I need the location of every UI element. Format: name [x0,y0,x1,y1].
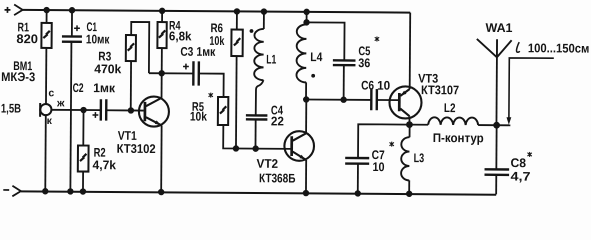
wire: C7 bottom to ground [357,164,359,194]
plus terminal sign [5,7,11,13]
svg-text:П-контур: П-контур [433,131,484,145]
svg-text:10мк: 10мк [86,32,110,46]
node dot C7 ground [355,190,361,196]
inductor L3 [401,137,410,180]
wire: L1 top lead [263,12,265,29]
resistor R1 [41,23,51,48]
emitter arrow VT3 (PNP, points to base) [401,91,407,96]
minus terminal sign [3,189,9,191]
node C VT1 collector junction [158,70,164,76]
wire: right rail drop to VT3 emitter [409,13,412,89]
wire: R6 top lead [236,11,238,29]
emitter arrow VT2 [299,155,305,160]
svg-text:1мк: 1мк [93,81,116,95]
wire: tank node to L2 [409,124,428,126]
wire: C8 top lead [495,125,497,169]
node dot R2 bottom ground [80,188,86,194]
wire: C8 bottom to ground [495,175,497,195]
wire: R6 bottom to VT2 base wire [235,56,238,148]
svg-text:10: 10 [372,160,384,174]
wire: microphone output to C2 [51,109,100,111]
transistor VT1 [139,97,169,127]
svg-text:L2: L2 [444,101,456,115]
star mark R5 [209,93,213,98]
svg-text:WA1: WA1 [485,21,512,35]
node dot L3 ground [406,191,412,197]
capacitor C4 [246,115,268,119]
plus mark C3 [183,64,189,70]
svg-text:МКЭ-3: МКЭ-3 [1,70,35,84]
wire: C1 top lead [71,10,73,36]
svg-text:470k: 470k [94,62,121,76]
node dot L4 top rail [303,9,309,15]
plus mark C1 [74,25,80,31]
svg-text:4,7k: 4,7k [93,158,117,172]
svg-text:С8: С8 [511,156,527,170]
wire: tank node to C7 [358,124,409,158]
wire: antenna lead down [495,57,497,125]
polarity dot L1 [250,29,254,33]
svg-text:1,5В: 1,5В [1,101,21,115]
node dot R6 top rail [234,8,240,14]
node E tank junction [406,121,413,128]
wire: VT3 collector lead down [408,116,410,124]
svg-text:С2: С2 [73,81,84,95]
wire: VT1 collector node horizontal [149,72,193,74]
node dot R4 top rail [159,8,165,14]
svg-text:22: 22 [271,114,284,128]
resistor R2 [78,145,89,171]
wire: R5 bottom to VT2 base [223,125,290,149]
node A mic output / R2 junction [80,107,86,113]
svg-text:ж: ж [56,97,65,109]
node dot R6 base junction [233,145,239,151]
star mark C8 [527,152,531,157]
capacitor C5 [333,60,356,65]
capacitor C8 [484,169,509,175]
wire: top supply rail [23,10,411,13]
svg-text:L4: L4 [310,50,322,64]
svg-text:КТ3102: КТ3102 [117,142,156,156]
svg-text:VT2: VT2 [257,157,279,171]
svg-text:4,7: 4,7 [510,170,530,184]
wire: C2 to VT1 base [106,109,143,111]
svg-text:10k: 10k [209,34,224,48]
resistor R6 [231,30,242,57]
node dot R1 top rail [43,7,49,13]
svg-text:6,8k: 6,8k [169,29,192,43]
dimension arrowhead [506,117,511,125]
wire: R2 lead [82,110,85,191]
wire: RF node to C6 [306,98,371,100]
capacitor C6 [371,89,377,110]
node dot mic bottom ground [42,188,48,194]
wire: L1 bottom to C4 [256,80,264,115]
wire: microphone bottom lead to ground [44,115,47,191]
wire: bottom ground rail [21,191,496,194]
svg-text:С3: С3 [180,45,193,59]
node dot C5 RF junction [340,97,346,103]
inductor L4 [296,24,306,82]
capacitor C3 [193,61,199,85]
svg-text:10: 10 [377,79,390,93]
svg-text:L3: L3 [414,151,425,165]
capacitor C1 [62,36,82,41]
node dot C4 base junction [252,145,258,151]
svg-text:КТ368Б: КТ368Б [259,171,296,185]
node dot VT1 emitter ground [158,189,164,195]
svg-text:с: с [48,87,54,99]
svg-text:КТ3107: КТ3107 [421,83,459,97]
microphone BM1 [40,103,51,117]
wire: VT2 collector lead up [305,99,307,133]
polarity dot L4 [311,74,315,78]
wire: L3 bottom to ground [408,180,410,193]
wire: C3 to R5 [199,74,224,97]
resistor R5 [218,97,228,125]
wire: C5 branch horizontal [306,22,344,60]
wire: R1 to microphone top [45,48,47,104]
minus input connector chevron [12,186,21,197]
wire: C6 to VT3 base [377,99,398,101]
wire: VT2 emitter to ground [305,160,307,193]
inductor L1 [254,29,264,80]
svg-text:36: 36 [358,56,370,70]
wire: C4 bottom to VT2 base wire [254,119,256,148]
wire: R4 top lead [161,11,163,22]
star mark C5 [375,36,379,41]
label antenna length [517,42,520,52]
capacitor C7 [345,158,369,164]
wire: R4 bottom lead [161,48,163,73]
wire: R3 top feedback link to collector node [131,22,149,73]
svg-text:820: 820 [16,32,38,46]
svg-text:L1: L1 [266,52,276,66]
inductor L2 [428,117,478,125]
node dot C1 top rail [69,7,75,13]
node dot C1 bottom ground [67,188,73,194]
antenna WA1 [477,39,512,57]
svg-text:С6: С6 [361,78,374,92]
plus input connector chevron [14,5,23,16]
resistor R3 [126,35,136,61]
wire: R1 top lead [46,10,48,23]
dimension line for antenna length [509,58,554,121]
svg-text:10k: 10k [190,110,207,124]
node D RF junction L4/VT2 collector [303,96,309,102]
node dot L1 top rail [261,8,267,14]
wire: VT1 emitter to ground [160,125,162,192]
svg-text:100...150см: 100...150см [528,41,590,55]
svg-text:VT1: VT1 [118,129,137,143]
wire: L4 top lead [306,12,308,24]
emitter arrow VT1 [155,120,161,124]
node F antenna junction [493,122,500,129]
transistor VT3 [389,86,421,118]
wire: L3 top lead [409,125,411,138]
resistor R4 [157,22,166,48]
capacitor C2 [101,99,107,120]
star mark C7 [389,142,393,147]
wire: C5 bottom lead [343,65,345,100]
wire: VT1 collector lead [161,73,163,98]
wire: L4 bottom lead [305,82,307,99]
svg-text:к: к [47,115,53,127]
wire: C1 bottom lead to ground (crosses mic wire) [70,42,71,192]
plus mark C2 [92,112,98,118]
transistor VT2 [284,131,314,161]
node dot VT2 emitter ground [303,190,309,196]
node B base of VT1 / R3 junction [128,107,134,113]
node dot C5 branch [303,19,309,25]
wire: L2 to antenna node [478,124,510,126]
wire: R3 bottom to VT1 base [130,61,132,110]
